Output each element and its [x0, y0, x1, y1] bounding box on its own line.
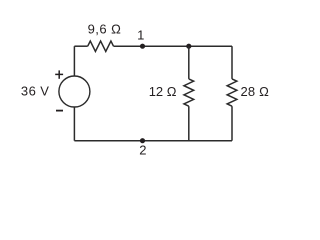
wire left upper segment	[73, 46, 75, 76]
node 1	[137, 27, 145, 49]
wire top-left segment	[74, 45, 87, 47]
resistor R 9,6 ohm (top, horizontal)	[88, 22, 122, 52]
wire left lower segment	[73, 107, 75, 141]
svg-text:12 Ω: 12 Ω	[149, 84, 177, 99]
resistor R 28 ohm (right, vertical)	[227, 79, 269, 106]
junction dot at 12 ohm branch	[186, 44, 191, 49]
svg-text:2: 2	[139, 143, 146, 158]
plus sign	[55, 70, 63, 78]
minus sign	[56, 110, 63, 112]
svg-text:9,6 Ω: 9,6 Ω	[88, 22, 122, 37]
wire right lower segment	[231, 106, 233, 141]
voltage source Vs 36 V	[21, 76, 90, 107]
wire middle branch upper	[188, 46, 190, 79]
wire top middle segment	[114, 45, 233, 47]
svg-text:36 V: 36 V	[21, 84, 50, 99]
wire middle branch lower	[188, 106, 190, 141]
node 2	[139, 138, 146, 158]
resistor R 12 ohm (middle, vertical)	[149, 79, 194, 106]
svg-text:28 Ω: 28 Ω	[241, 84, 270, 99]
wire right upper segment	[231, 46, 233, 79]
svg-text:1: 1	[137, 27, 144, 42]
wire bottom segment	[74, 140, 232, 142]
